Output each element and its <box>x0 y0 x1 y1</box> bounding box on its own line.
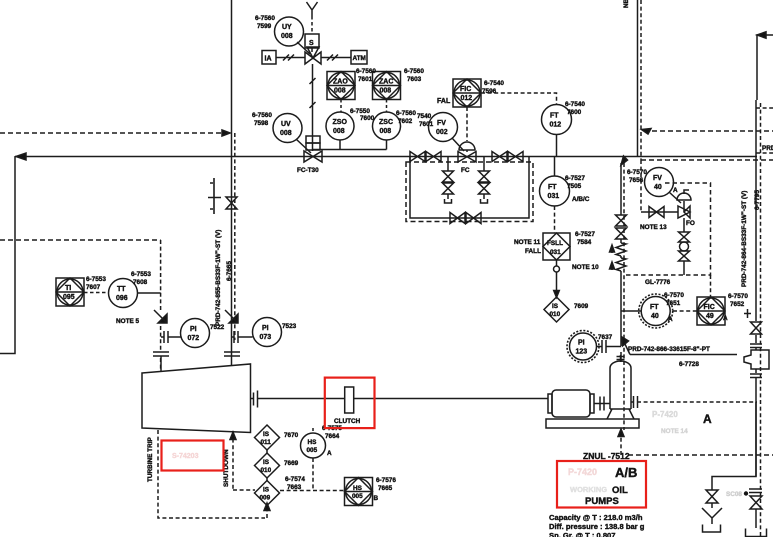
svg-text:7637: 7637 <box>598 334 613 341</box>
svg-text:009: 009 <box>260 495 271 502</box>
wire dashed track x=235 <box>234 133 236 340</box>
svg-text:A: A <box>703 412 712 426</box>
wire dashed drop x=161 to turbine <box>160 240 162 371</box>
svg-text:031: 031 <box>550 249 561 256</box>
svg-text:NOTE 5: NOTE 5 <box>116 318 140 325</box>
wire top vertical pair x=641 dashed <box>640 0 642 160</box>
svg-text:6-7665: 6-7665 <box>226 261 233 281</box>
IA box <box>262 51 276 65</box>
valve block right 2 <box>508 152 523 162</box>
logic FSLL 031 <box>543 233 570 260</box>
actuator diaphragm FV <box>459 142 475 152</box>
svg-text:7600: 7600 <box>567 109 582 116</box>
svg-text:UY: UY <box>282 24 292 31</box>
svg-text:011: 011 <box>261 439 272 446</box>
wire valve down to FC-T30 with chevrons <box>310 64 316 151</box>
svg-text:TI: TI <box>65 285 71 292</box>
svg-text:096: 096 <box>116 295 128 302</box>
wire suction pipe x=621 <box>620 163 622 362</box>
wire FIC012 to FV002 dashed <box>466 107 468 141</box>
svg-text:40: 40 <box>654 184 662 191</box>
control valve FV <box>458 152 476 163</box>
wire trip dashed loop <box>158 430 265 518</box>
flow arrow 2 <box>610 262 615 270</box>
pump vessel <box>610 361 631 409</box>
svg-text:B: B <box>374 495 379 502</box>
svg-text:IS: IS <box>552 303 559 310</box>
flange pair lower <box>750 374 762 378</box>
svg-text:ZSC: ZSC <box>379 119 393 126</box>
svg-text:IA: IA <box>265 56 272 63</box>
wire IA to valve with chevrons <box>276 55 305 61</box>
svg-text:PRD: PRD <box>762 145 773 152</box>
wire FV40 branch dashed left edge <box>640 160 642 212</box>
wire FT031 tap <box>554 157 556 177</box>
wire dashed signal y=131 right <box>644 130 773 132</box>
label leader PRD-742-866 <box>624 342 737 355</box>
svg-text:7608: 7608 <box>133 279 148 286</box>
svg-text:7523: 7523 <box>282 323 297 330</box>
svg-text:7670: 7670 <box>284 432 299 439</box>
instrument PI 073 <box>253 318 282 347</box>
basin drain B <box>746 529 767 537</box>
wire FV40 diagonal <box>669 192 681 203</box>
flow arrow 1 <box>610 245 615 253</box>
wire stem solenoid to valve <box>311 48 313 52</box>
wire pipe to angle valve <box>641 211 678 213</box>
wire ZSO/ZSC linkage <box>313 140 387 150</box>
flange pair inlet1 <box>153 352 169 356</box>
wire left exit arrow <box>16 153 26 160</box>
svg-text:073: 073 <box>260 334 272 341</box>
instrument FT 40 seal <box>641 297 670 326</box>
svg-text:002: 002 <box>436 129 448 136</box>
instrument FV 40 <box>645 168 674 197</box>
svg-text:6-7560: 6-7560 <box>396 110 416 117</box>
svg-text:PI: PI <box>190 326 197 333</box>
wire ZAC to ZSC dashed <box>386 100 388 113</box>
pump base <box>546 419 639 428</box>
svg-text:NOTE 13: NOTE 13 <box>640 224 667 231</box>
wire dashed signal y=160 right <box>641 159 773 161</box>
svg-text:A: A <box>327 450 332 457</box>
svg-text:40: 40 <box>651 313 659 320</box>
wire inlet1 to turbine <box>160 356 162 372</box>
svg-text:S: S <box>309 40 314 47</box>
wire right column solid x=756 <box>755 100 757 477</box>
valve FC-T30 <box>304 151 322 162</box>
svg-text:FSLL: FSLL <box>547 240 563 247</box>
svg-text:P-7420: P-7420 <box>568 467 597 477</box>
junction circle <box>556 260 558 266</box>
svg-text:FC: FC <box>461 167 470 174</box>
wire dashed to FIC49 <box>710 275 712 297</box>
flange pair inlet2 <box>224 352 240 356</box>
wire right entry line y=35 <box>757 35 773 100</box>
svg-text:6-7576: 6-7576 <box>376 477 396 484</box>
svg-text:6-7795: 6-7795 <box>754 190 761 210</box>
svg-text:7599: 7599 <box>257 23 272 30</box>
instrument FT 012 <box>542 105 572 135</box>
wire to box bottom <box>683 261 685 275</box>
wire FT031 to FSLL dashed <box>554 206 556 233</box>
svg-text:6-7553: 6-7553 <box>131 271 151 278</box>
wire top-left dashed signal y=133 <box>0 132 226 134</box>
svg-text:ZSO: ZSO <box>333 119 348 126</box>
svg-text:7540: 7540 <box>417 113 432 120</box>
svg-text:PI: PI <box>262 325 269 332</box>
trap symbol note5 right <box>225 310 238 323</box>
wire vertical pipe x=232 lower to turbine <box>231 157 233 365</box>
wire dashed suction signal x=624 <box>623 163 625 430</box>
svg-text:7602: 7602 <box>398 118 413 125</box>
svg-text:008: 008 <box>380 88 392 95</box>
wire shutdown dashed <box>232 432 234 490</box>
wire dashed box TI/TT top y=240 <box>0 239 161 241</box>
svg-text:7603: 7603 <box>407 76 422 83</box>
svg-text:7600: 7600 <box>360 115 375 122</box>
svg-text:TURBINE TRIP: TURBINE TRIP <box>147 437 154 482</box>
dashed enclosure manifold <box>406 162 533 222</box>
switch ZAO 008 <box>327 72 355 100</box>
wire arrow right entry <box>757 32 766 38</box>
svg-text:PI: PI <box>578 340 585 347</box>
svg-text:FIC: FIC <box>704 304 715 311</box>
pump discharge coupling <box>631 396 638 408</box>
valve right column <box>751 322 762 334</box>
turbine body <box>142 364 251 433</box>
wire dashed stub y=153 <box>756 152 773 154</box>
svg-text:UV: UV <box>281 121 291 128</box>
svg-text:PRD-742-855-BS33F-1W"-ST (V): PRD-742-855-BS33F-1W"-ST (V) <box>215 230 222 326</box>
drain hook left <box>445 194 452 203</box>
wire FIC012 to FT012 dashed <box>481 93 557 104</box>
valve drain left lower <box>443 183 454 194</box>
highlight red box pumps <box>557 461 646 508</box>
pump skirt <box>607 409 634 419</box>
valve block left 1 <box>410 152 425 162</box>
valve block left 2 <box>426 152 441 162</box>
svg-text:6-7570: 6-7570 <box>627 169 647 176</box>
wire FT40 stub to suction <box>621 310 641 312</box>
svg-text:CLUTCH: CLUTCH <box>334 418 361 425</box>
svg-text:6-7540: 6-7540 <box>565 101 585 108</box>
actuator dome angle valve <box>677 190 691 200</box>
drain hook right <box>481 194 488 203</box>
valve suction 1 <box>616 215 627 226</box>
strainer body <box>744 350 769 369</box>
instrument PI 123 seal <box>570 333 597 360</box>
wire valve to ATM with chevrons <box>321 55 351 61</box>
wire main process line y=156 <box>15 156 757 158</box>
coupling bars PI123 <box>597 340 622 353</box>
switch ZAC 008 <box>373 72 401 100</box>
wire FT40 to FIC49 dashed <box>673 310 697 312</box>
vent Y symbol <box>307 2 318 16</box>
instrument TT 096 <box>109 279 138 308</box>
wire arrow on y=131 <box>642 129 652 135</box>
svg-text:ZAC: ZAC <box>379 79 393 86</box>
controller FIC 012 <box>453 79 481 107</box>
wire bypass <box>410 157 529 219</box>
svg-text:Diff. pressure : 138.8 bar g: Diff. pressure : 138.8 bar g <box>549 522 645 531</box>
valve drain left upper <box>443 171 454 182</box>
3-way valve <box>305 47 321 64</box>
svg-text:072: 072 <box>188 335 200 342</box>
svg-text:7609: 7609 <box>574 303 589 310</box>
svg-text:7596: 7596 <box>482 88 497 95</box>
svg-text:7664: 7664 <box>325 433 340 440</box>
svg-text:FAL: FAL <box>437 98 451 105</box>
valve suction 2 <box>616 228 627 239</box>
motor body <box>552 390 590 417</box>
svg-text:SC08: SC08 <box>726 491 742 498</box>
svg-text:095: 095 <box>63 294 75 301</box>
motor shaft coupling <box>594 397 610 411</box>
wire top vertical pair x=638 solid <box>637 0 639 156</box>
spec blind symbol <box>208 178 221 214</box>
instrument UY 008 <box>275 17 304 46</box>
svg-text:FALL: FALL <box>525 248 541 255</box>
wire drain stub right <box>483 157 485 172</box>
coupling bars PI072 <box>161 331 181 343</box>
clutch element <box>345 387 354 413</box>
coupling bars PI073 <box>232 331 253 343</box>
wire HS005A dashed stub up <box>312 428 314 433</box>
svg-text:6-7540: 6-7540 <box>484 80 504 87</box>
svg-text:OIL: OIL <box>612 485 628 496</box>
instrument PI 072 <box>181 319 210 348</box>
wire ZAO to ZSO dashed <box>340 100 342 113</box>
valve bypass 1 <box>450 213 465 224</box>
svg-text:6-7527: 6-7527 <box>565 175 585 182</box>
svg-text:PUMPS: PUMPS <box>585 496 619 507</box>
wire UY diagonal <box>297 42 310 54</box>
valve block on branch <box>649 207 664 218</box>
svg-text:010: 010 <box>550 311 561 318</box>
svg-text:6-7570: 6-7570 <box>728 293 748 300</box>
svg-text:ATM: ATM <box>353 55 366 62</box>
svg-text:IS: IS <box>263 431 270 438</box>
wire TI to TT dashed <box>84 292 108 294</box>
svg-text:TT: TT <box>117 286 126 293</box>
switch IS 011 diamond <box>255 425 280 450</box>
valve block right 1 <box>492 152 507 162</box>
solenoid S box <box>305 34 319 48</box>
dashed enclosure FV40 <box>624 183 711 275</box>
svg-text:FO: FO <box>686 220 695 227</box>
flex joint 1 <box>616 243 626 256</box>
angle valve FO <box>678 201 690 218</box>
svg-text:A: A <box>723 315 728 322</box>
switch ZSC 008 <box>373 112 401 140</box>
switch IS 010 diamond <box>544 297 569 322</box>
wire dashed stub y=108 <box>756 107 773 109</box>
valve down 1 <box>679 232 690 242</box>
valve drain right upper <box>479 171 490 182</box>
ATM box <box>351 51 367 65</box>
svg-text:A/B/C: A/B/C <box>572 196 590 203</box>
highlight red box turbine trip <box>162 441 224 471</box>
wire right column dashed x=760 <box>760 103 762 537</box>
svg-text:6-7553: 6-7553 <box>86 276 106 283</box>
wire HS005A dashed drop <box>312 458 314 490</box>
svg-text:008: 008 <box>333 128 345 135</box>
blind tick right column <box>744 309 751 318</box>
svg-text:IS: IS <box>263 459 270 466</box>
svg-text:7656: 7656 <box>629 177 644 184</box>
svg-text:Capacity @ T : 218.0 m3/h: Capacity @ T : 218.0 m3/h <box>549 513 643 522</box>
wire dashed ZNUL y=455 <box>628 454 773 456</box>
svg-text:012: 012 <box>550 122 562 129</box>
valve drain right lower <box>479 183 490 194</box>
svg-text:ZNUL -7512: ZNUL -7512 <box>583 451 630 461</box>
svg-text:NOTE 11: NOTE 11 <box>514 239 541 246</box>
svg-text:7651: 7651 <box>666 300 681 307</box>
svg-text:NOTE 14: NOTE 14 <box>661 428 688 435</box>
svg-text:123: 123 <box>576 349 588 356</box>
svg-text:008: 008 <box>280 130 292 137</box>
svg-text:FIC: FIC <box>460 86 471 93</box>
svg-text:A/B: A/B <box>615 465 637 480</box>
svg-text:7505: 7505 <box>567 183 582 190</box>
svg-text:HS: HS <box>308 439 318 446</box>
svg-text:7669: 7669 <box>284 460 299 467</box>
flange ticks drain B <box>749 489 762 493</box>
svg-text:FV: FV <box>437 120 446 127</box>
wire dashed discharge y=402 <box>637 401 757 403</box>
svg-text:6-7527: 6-7527 <box>575 231 595 238</box>
svg-text:6-7574: 6-7574 <box>285 476 305 483</box>
svg-text:A: A <box>668 316 673 323</box>
svg-text:7584: 7584 <box>577 239 592 246</box>
instrument UV 008 <box>273 114 302 143</box>
wire dashed pump start arrow <box>620 436 622 455</box>
svg-text:7652: 7652 <box>730 301 745 308</box>
wire IS chain links <box>266 450 268 481</box>
switch ZSO 008 <box>326 112 354 140</box>
svg-text:6-7560: 6-7560 <box>356 68 376 75</box>
valve drain B <box>750 496 762 509</box>
svg-text:FC-T30: FC-T30 <box>297 167 319 174</box>
svg-text:FV: FV <box>653 175 662 182</box>
flex joint 2 <box>616 258 626 271</box>
wire left down branch <box>0 157 15 354</box>
svg-text:7607: 7607 <box>86 284 101 291</box>
wire to IS010 with arrow <box>556 272 558 294</box>
svg-text:49: 49 <box>706 313 714 320</box>
svg-text:PRD-742-866-33615F-8"-PT: PRD-742-866-33615F-8"-PT <box>628 346 710 353</box>
svg-text:GL-7776: GL-7776 <box>645 279 671 286</box>
svg-text:012: 012 <box>461 95 473 102</box>
instrument FT 031 <box>540 176 570 206</box>
pump top fitting <box>617 355 625 362</box>
svg-text:031: 031 <box>548 193 560 200</box>
turbine shaft coupling <box>251 391 346 408</box>
svg-text:NB: NB <box>623 0 630 8</box>
wire UV diagonal <box>296 139 311 153</box>
svg-text:P-7420: P-7420 <box>652 410 678 419</box>
highlight red box clutch <box>325 378 375 429</box>
svg-text:6-7560: 6-7560 <box>404 68 424 75</box>
wire FT012 to main <box>556 135 558 157</box>
svg-text:S-74203: S-74203 <box>172 453 199 460</box>
switch IS 010 diamond <box>255 453 280 478</box>
wire FV002 diagonal to valve <box>452 138 464 151</box>
svg-text:IS: IS <box>263 487 270 494</box>
svg-text:6-7570: 6-7570 <box>664 292 684 299</box>
svg-text:7601: 7601 <box>358 76 373 83</box>
svg-text:6-7560: 6-7560 <box>255 15 275 22</box>
svg-text:008: 008 <box>380 128 392 135</box>
wire arrow into node at (231,133) <box>222 130 230 136</box>
wire shaft clutch to motor <box>354 398 548 400</box>
svg-text:NOTE 10: NOTE 10 <box>572 264 599 271</box>
instrument HS 005 A <box>301 433 326 458</box>
wire drain B to basin <box>755 509 757 528</box>
svg-text:7601: 7601 <box>419 121 434 128</box>
wire arrow into IS009 <box>266 509 268 518</box>
flange pair <box>750 344 762 348</box>
wire dashed stem to solenoid <box>311 16 313 34</box>
wire dashed y=490 <box>233 489 344 492</box>
svg-text:7665: 7665 <box>378 485 393 492</box>
svg-text:FT: FT <box>550 113 559 120</box>
svg-text:PRD-742-864-BS33F-1W"-ST (V): PRD-742-864-BS33F-1W"-ST (V) <box>741 191 748 287</box>
instrument FV 002 <box>429 113 458 142</box>
valve vent x232 <box>226 197 237 209</box>
svg-text:Sp. Gr. @ T : 0.807: Sp. Gr. @ T : 0.807 <box>549 531 616 537</box>
svg-text:010: 010 <box>261 467 272 474</box>
svg-text:ZAO: ZAO <box>333 79 348 86</box>
valve down 2 <box>679 251 690 261</box>
wire vertical pipe x=232 upper <box>231 0 233 156</box>
wire drain stub left <box>447 157 449 172</box>
wire angle valve down <box>683 218 685 232</box>
wire arrow junction suction <box>621 156 628 165</box>
svg-text:005: 005 <box>307 447 318 454</box>
svg-text:WORKING: WORKING <box>570 485 607 494</box>
trap symbol note5 left <box>154 310 167 323</box>
controller FIC 49 <box>697 297 725 325</box>
svg-text:7663: 7663 <box>287 484 302 491</box>
funnel drain A <box>702 503 722 532</box>
actuator FC-T30 piston <box>306 136 320 143</box>
valve drain A <box>706 490 718 503</box>
svg-text:6-7728: 6-7728 <box>679 361 699 368</box>
svg-text:008: 008 <box>334 88 346 95</box>
svg-text:7598: 7598 <box>254 120 269 127</box>
svg-text:008: 008 <box>281 33 293 40</box>
svg-text:FT: FT <box>650 304 659 311</box>
svg-text:FT: FT <box>548 184 557 191</box>
svg-text:005: 005 <box>352 493 363 500</box>
instrument TI 095 <box>56 278 84 306</box>
valve ball mid <box>680 242 689 251</box>
svg-text:A: A <box>673 187 678 194</box>
valve bypass 2 <box>466 213 481 224</box>
station HS 005 B <box>345 478 373 506</box>
svg-text:HS: HS <box>353 485 363 492</box>
svg-text:6-7550: 6-7550 <box>350 108 370 115</box>
wire TT to drop <box>138 292 161 294</box>
wire L-drop bottom right <box>712 402 756 490</box>
switch IS 009 diamond <box>255 481 280 506</box>
svg-text:6-7560: 6-7560 <box>252 112 272 119</box>
